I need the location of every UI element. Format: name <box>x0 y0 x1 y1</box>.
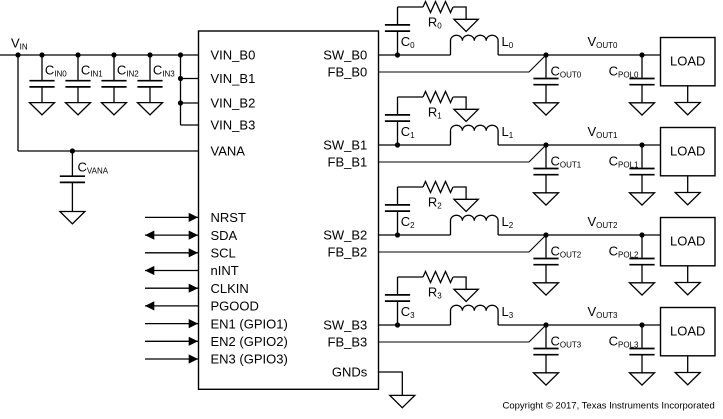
ground (COUT3) <box>534 373 559 385</box>
wire LOAD0 to ground <box>687 86 689 103</box>
node VOUT3 junction <box>543 322 548 327</box>
ground (LOAD2) <box>675 283 700 295</box>
svg-text:nINT: nINT <box>211 263 239 278</box>
capacitor COUT2 <box>533 235 581 283</box>
wire snubber top <box>398 96 424 98</box>
wire EN1 signal <box>145 319 199 328</box>
wire FB_B0 <box>379 55 547 72</box>
svg-text:NRST: NRST <box>211 210 246 225</box>
resistor R0 <box>423 2 453 31</box>
svg-text:FB_B0: FB_B0 <box>328 65 368 80</box>
ground (CIN0) <box>30 103 55 115</box>
capacitor CVANA <box>60 151 109 212</box>
svg-text:SW_B3: SW_B3 <box>323 318 367 333</box>
inductor L3 <box>451 304 514 325</box>
svg-text:FB_B2: FB_B2 <box>328 245 368 260</box>
ground (COUT2) <box>534 283 559 295</box>
wire stub VIN_B1 <box>181 78 199 80</box>
wire VOUT2 <box>498 234 660 236</box>
capacitor CPOL3 <box>609 325 655 373</box>
LOAD box 1 <box>661 128 716 176</box>
svg-text:LOAD: LOAD <box>670 144 705 159</box>
node SW_B0 junction <box>395 52 400 57</box>
wire PGOOD signal <box>145 301 199 310</box>
wire VOUT1 <box>498 144 660 146</box>
ground (CVANA) <box>60 212 85 224</box>
capacitor CIN3 <box>137 55 175 103</box>
wire VOUT0 <box>498 54 660 56</box>
wire stub VIN_B2 <box>181 102 199 104</box>
LOAD box 0 <box>661 38 716 86</box>
wire VOUT3 <box>498 324 660 326</box>
wire FB_B1 <box>379 145 547 162</box>
svg-text:LOAD: LOAD <box>670 234 705 249</box>
capacitor CPOL1 <box>609 145 655 193</box>
node CIN3 junction <box>147 52 152 57</box>
wire nINT signal <box>145 266 199 275</box>
svg-text:VIN_B0: VIN_B0 <box>211 48 256 63</box>
node CPOL3 junction <box>639 322 644 327</box>
node CIN2 junction <box>111 52 116 57</box>
svg-text:VIN_B2: VIN_B2 <box>211 96 256 111</box>
ground (COUT1) <box>534 193 559 205</box>
svg-text:GNDs: GNDs <box>332 365 368 380</box>
LOAD box 2 <box>661 218 716 266</box>
wire resistor to ground <box>453 7 466 19</box>
resistor R2 <box>423 182 453 211</box>
node SW_B1 junction <box>395 142 400 147</box>
svg-text:SCL: SCL <box>211 246 236 261</box>
wire SCL signal <box>145 248 199 257</box>
op-amp U1 PMIC body <box>199 31 379 389</box>
capacitor C0 (snubber) <box>385 7 415 55</box>
LOAD box 3 <box>661 308 716 356</box>
svg-text:EN3 (GPIO3): EN3 (GPIO3) <box>211 352 288 367</box>
svg-text:LOAD: LOAD <box>670 54 705 69</box>
ground (R1 snubber) <box>454 109 478 121</box>
svg-text:FB_B3: FB_B3 <box>328 335 368 350</box>
wire SDA signal <box>145 231 199 240</box>
node VOUT0 junction <box>543 52 548 57</box>
svg-text:FB_B1: FB_B1 <box>328 155 368 170</box>
capacitor C1 (snubber) <box>385 97 415 145</box>
capacitor CPOL2 <box>609 235 655 283</box>
capacitor COUT3 <box>533 325 581 373</box>
node VOUT1 junction <box>543 142 548 147</box>
wire NRST signal <box>145 213 199 222</box>
ground (CPOL2) <box>630 283 655 295</box>
svg-text:VIN_B1: VIN_B1 <box>211 71 256 86</box>
wire snubber top <box>398 6 424 8</box>
node SW_B3 junction <box>395 322 400 327</box>
ground (LOAD0) <box>675 103 700 115</box>
svg-text:LOAD: LOAD <box>670 324 705 339</box>
capacitor CIN0 <box>29 55 67 103</box>
wire FB_B2 <box>379 235 547 252</box>
wire SW_B0 <box>379 54 451 56</box>
wire SW_B1 <box>379 144 451 146</box>
capacitor C2 (snubber) <box>385 187 415 235</box>
svg-text:SW_B0: SW_B0 <box>323 48 367 63</box>
svg-text:EN2 (GPIO2): EN2 (GPIO2) <box>211 334 288 349</box>
wire LOAD3 to ground <box>687 356 689 373</box>
node VOUT2 junction <box>543 232 548 237</box>
wire LOAD2 to ground <box>687 266 689 283</box>
wire FB_B3 <box>379 325 547 342</box>
ground (CPOL0) <box>630 103 655 115</box>
svg-text:SW_B1: SW_B1 <box>323 138 367 153</box>
wire EN3 signal <box>145 354 199 363</box>
wire CLKIN signal <box>145 284 199 293</box>
capacitor CIN2 <box>101 55 139 103</box>
wire GNDs <box>379 372 403 395</box>
wire VIN rail <box>0 54 199 56</box>
ground (R0 snubber) <box>454 19 478 31</box>
node CPOL2 junction <box>639 232 644 237</box>
capacitor COUT0 <box>533 55 581 103</box>
svg-text:EN1 (GPIO1): EN1 (GPIO1) <box>211 316 288 331</box>
ground (CIN2) <box>102 103 127 115</box>
svg-text:VIN_B3: VIN_B3 <box>211 118 256 133</box>
wire VIN to VANA (vertical) <box>17 55 19 151</box>
svg-text:VANA: VANA <box>211 144 246 159</box>
ground (LOAD3) <box>675 373 700 385</box>
capacitor CPOL0 <box>609 55 655 103</box>
wire resistor to ground <box>453 277 466 289</box>
node CPOL0 junction <box>639 52 644 57</box>
capacitor COUT1 <box>533 145 581 193</box>
inductor L0 <box>451 34 514 55</box>
node SW_B2 junction <box>395 232 400 237</box>
node VIN bus junction <box>178 52 183 57</box>
node CIN1 junction <box>75 52 80 57</box>
ground (CIN3) <box>138 103 163 115</box>
wire resistor to ground <box>453 97 466 109</box>
node VIN_B1 junction <box>178 76 183 81</box>
ground (CIN1) <box>66 103 91 115</box>
node VIN junction <box>15 52 20 57</box>
svg-text:SW_B2: SW_B2 <box>323 228 367 243</box>
svg-text:PGOOD: PGOOD <box>211 299 259 314</box>
ground (R2 snubber) <box>454 199 478 211</box>
resistor R3 <box>423 272 453 301</box>
wire SW_B2 <box>379 234 451 236</box>
wire LOAD1 to ground <box>687 176 689 193</box>
wire resistor to ground <box>453 187 466 199</box>
wire VANA <box>18 150 199 152</box>
ground (GNDs) <box>390 395 415 407</box>
node VIN_B2 junction <box>178 100 183 105</box>
capacitor CIN1 <box>65 55 103 103</box>
wire stub VIN_B3 <box>181 124 199 126</box>
inductor L1 <box>451 124 514 145</box>
node CIN0 junction <box>39 52 44 57</box>
ground (R3 snubber) <box>454 289 478 301</box>
wire EN2 signal <box>145 337 199 346</box>
wire SW_B3 <box>379 324 451 326</box>
resistor R1 <box>423 92 453 121</box>
node CVANA junction <box>70 148 75 153</box>
svg-text:SDA: SDA <box>211 228 238 243</box>
ground (CPOL3) <box>630 373 655 385</box>
ground (LOAD1) <box>675 193 700 205</box>
svg-text:CLKIN: CLKIN <box>211 281 249 296</box>
ground (CPOL1) <box>630 193 655 205</box>
wire snubber top <box>398 186 424 188</box>
node CPOL1 junction <box>639 142 644 147</box>
svg-text:Copyright © 2017, Texas Instru: Copyright © 2017, Texas Instruments Inco… <box>503 401 715 412</box>
inductor L2 <box>451 214 514 235</box>
capacitor C3 (snubber) <box>385 277 415 325</box>
wire VIN bus (vertical) <box>180 55 182 125</box>
ground (COUT0) <box>534 103 559 115</box>
wire snubber top <box>398 276 424 278</box>
